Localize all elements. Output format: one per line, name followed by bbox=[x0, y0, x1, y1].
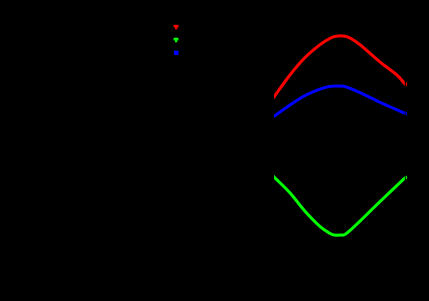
legend marker green triangle-down bbox=[174, 38, 179, 43]
green curve bbox=[272, 175, 406, 235]
red curve end tick bbox=[406, 82, 407, 86]
blue curve end tick bbox=[406, 112, 407, 116]
red curve bbox=[272, 36, 406, 100]
legend marker blue square bbox=[174, 51, 179, 55]
legend marker red triangle-down bbox=[174, 25, 179, 30]
green curve end tick bbox=[406, 176, 407, 179]
blue curve bbox=[272, 86, 406, 118]
